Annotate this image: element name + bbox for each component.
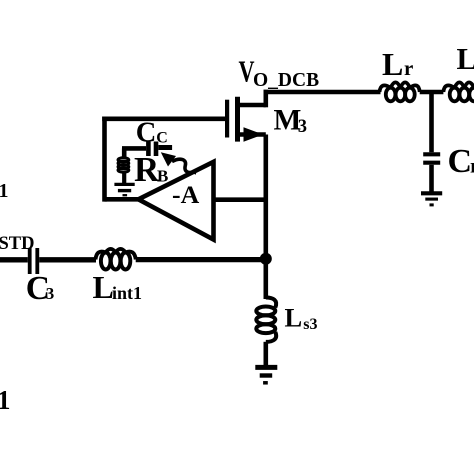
wire main bottom rail left of C3 — [0, 257, 28, 262]
ground (below Ls3) — [255, 367, 277, 382]
svg-text:L: L — [457, 42, 474, 76]
wire Lint1 to node — [136, 257, 266, 262]
node junction dot — [260, 253, 272, 265]
svg-text:L: L — [93, 269, 114, 305]
wire C3 to Lint1 — [39, 257, 96, 262]
wire drain stub — [238, 103, 266, 108]
svg-text:C: C — [136, 118, 157, 149]
svg-text:C: C — [448, 143, 473, 180]
svg-text:C: C — [156, 129, 168, 146]
svg-text:STD: STD — [0, 234, 35, 254]
wire feedback box left vertical — [102, 117, 107, 202]
svg-text:L: L — [285, 302, 303, 332]
wire drop to Cr — [429, 92, 434, 152]
wire source stub — [238, 132, 266, 137]
wire amp output to source riser — [214, 197, 266, 202]
svg-text:L: L — [382, 46, 403, 82]
wire top V_O_DCB rail — [264, 90, 381, 95]
svg-text:1: 1 — [0, 180, 9, 202]
svg-text:s3: s3 — [303, 316, 317, 333]
inductor Ls3 coil — [256, 298, 276, 342]
transistor M3 source arrow — [244, 127, 264, 142]
transistor M3 channel bar — [235, 97, 240, 142]
capacitor CC plates — [146, 142, 151, 157]
svg-text:B: B — [157, 167, 168, 186]
wire RB to ground — [122, 172, 126, 183]
inductor Lint1 coil — [96, 249, 136, 270]
wire between Lr and junction — [420, 90, 444, 95]
inductor L (second, right edge) coil — [443, 82, 474, 101]
arrow (tuning, points at CC) — [161, 152, 194, 174]
svg-text:1: 1 — [0, 385, 11, 415]
svg-text:3: 3 — [298, 117, 307, 137]
wire feedback box bottom — [105, 197, 142, 202]
wire drain riser — [263, 90, 268, 108]
op-amp -A triangle — [138, 162, 213, 240]
svg-text:-A: -A — [172, 180, 200, 209]
svg-text:O_DCB: O_DCB — [253, 70, 319, 91]
wire source riser down to node — [263, 135, 268, 300]
transistor M3 gate bar — [225, 100, 229, 138]
capacitor Cr — [423, 152, 440, 156]
ground (below RB) — [114, 184, 134, 195]
ground (below Cr) — [421, 193, 442, 205]
capacitor C3 plates — [28, 248, 32, 274]
wire CC left drop to RB — [122, 148, 127, 158]
resistor RB coil — [118, 158, 129, 172]
svg-text:int1: int1 — [112, 283, 142, 303]
wire CC right stub — [158, 145, 172, 150]
wire Cr to ground — [429, 165, 434, 192]
svg-text:3: 3 — [46, 284, 55, 303]
svg-text:r: r — [404, 56, 413, 80]
svg-text:r: r — [470, 156, 474, 178]
wire Ls3 to ground — [263, 342, 268, 366]
capacitor CC left wire — [122, 146, 146, 151]
inductor Lr coil — [380, 82, 420, 101]
wire gate (feedback box top, node gate of M3) — [102, 117, 225, 122]
